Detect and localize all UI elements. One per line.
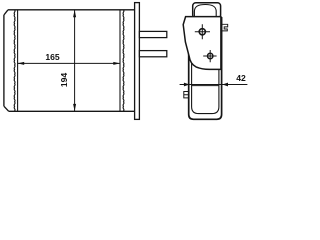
svg-text:165: 165 (45, 52, 60, 62)
svg-text:42: 42 (236, 73, 246, 83)
svg-text:194: 194 (59, 73, 69, 88)
